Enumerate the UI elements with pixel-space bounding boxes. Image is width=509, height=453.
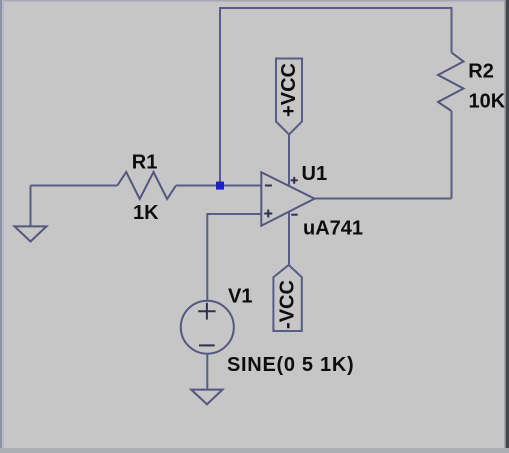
wire: left ground drop	[30, 186, 32, 227]
resistor R1 zigzag (horizontal)	[117, 172, 176, 199]
wire: op-amp output to right vertical	[315, 198, 452, 200]
window edge bottom	[0, 448, 509, 453]
svg-text:R1: R1	[132, 152, 158, 174]
ground (under V1)	[191, 390, 222, 405]
wire: R2 bottom to output corner	[451, 111, 453, 199]
svg-text:10K: 10K	[469, 91, 506, 113]
svg-text:V1: V1	[228, 286, 252, 308]
svg-text:1K: 1K	[133, 202, 159, 224]
+VCC flag outline	[276, 59, 302, 135]
op-amp top power plus mark	[291, 179, 298, 181]
svg-text:SINE(0 5 1K): SINE(0 5 1K)	[227, 354, 354, 376]
op-amp bottom power minus mark	[291, 214, 297, 216]
V1 minus mark	[199, 344, 215, 346]
svg-text:R2: R2	[468, 61, 494, 83]
op-amp U1 triangle	[261, 172, 314, 226]
V1 plus mark	[198, 310, 215, 312]
op-amp bottom power pin wire	[288, 212, 290, 265]
-VCC flag outline	[273, 265, 301, 331]
svg-text:+VCC: +VCC	[278, 63, 300, 117]
wire: R1 to op-amp inverting input	[176, 185, 261, 187]
svg-text:U1: U1	[302, 163, 328, 185]
op-amp top power pin wire	[288, 134, 290, 186]
svg-text:-VCC: -VCC	[277, 280, 299, 329]
svg-text:uA741: uA741	[303, 218, 363, 240]
op-amp non-inverting input plus mark	[264, 213, 272, 215]
resistor R2 zigzag (vertical)	[438, 53, 464, 112]
voltage source V1 circle	[181, 301, 234, 354]
window edge top	[0, 0, 509, 2]
window edge left	[0, 0, 2, 453]
wire: left input horizontal into R1	[31, 185, 118, 187]
node junction (blue square)	[216, 182, 224, 190]
wire: V1 bottom to ground	[206, 354, 208, 390]
ground (left)	[15, 226, 47, 241]
window edge right	[505, 0, 507, 453]
wire: top feedback horizontal + verticals	[220, 8, 452, 186]
wire: non-inverting input from V1	[207, 214, 261, 301]
op-amp inverting input minus mark	[265, 185, 272, 187]
